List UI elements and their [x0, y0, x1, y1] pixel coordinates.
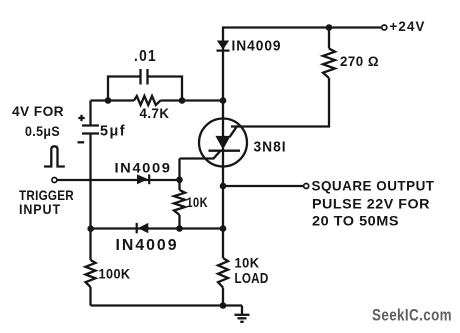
svg-text:+24V: +24V: [390, 18, 426, 34]
svg-text:10K: 10K: [187, 195, 209, 210]
svg-text:100K: 100K: [99, 266, 131, 282]
svg-text:270 Ω: 270 Ω: [340, 53, 379, 69]
svg-text:SeekIC.com: SeekIC.com: [372, 306, 452, 325]
svg-text:INPUT: INPUT: [19, 201, 61, 217]
svg-text:IN4009: IN4009: [115, 159, 172, 175]
svg-text:IN4009: IN4009: [116, 237, 179, 254]
svg-text:20 TO 50MS: 20 TO 50MS: [312, 213, 399, 229]
svg-text:SQUARE OUTPUT: SQUARE OUTPUT: [312, 178, 435, 194]
svg-text:.01: .01: [134, 48, 157, 65]
svg-text:3N8I: 3N8I: [254, 139, 287, 155]
svg-text:5μf: 5μf: [100, 124, 126, 140]
svg-text:IN4009: IN4009: [232, 39, 282, 55]
svg-text:PULSE 22V FOR: PULSE 22V FOR: [312, 195, 430, 211]
svg-text:0.5μS: 0.5μS: [25, 123, 60, 139]
svg-text:4V FOR: 4V FOR: [12, 103, 64, 119]
svg-text:4.7K: 4.7K: [140, 106, 170, 121]
svg-text:LOAD: LOAD: [235, 271, 269, 287]
svg-text:10K: 10K: [235, 256, 260, 271]
